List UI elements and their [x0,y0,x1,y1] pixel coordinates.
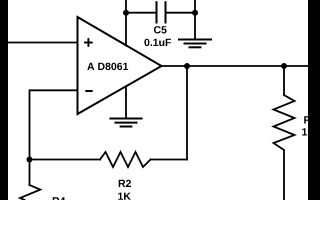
resistor R3 (load) [274,95,295,150]
wire bypass rail right [166,12,196,14]
node junction dot (C5 / ground) [192,10,198,16]
wire load resistor top [283,66,285,95]
wire output [162,65,309,67]
wire feedback vertical [186,66,188,160]
node junction dot (inverting / R2 / R4) [27,157,33,163]
wire load resistor bottom [283,150,285,200]
capacitor C5 reference label [154,26,167,33]
wire inverting input [30,90,78,185]
op-amp U1 AD8061 triangle [78,17,162,114]
wire feedback bottom [30,159,101,161]
resistor R2 [100,152,151,167]
op-amp U1 non-inverting input + marker [85,39,92,46]
node junction dot (output / load) [281,63,287,69]
op-amp U1 label AD8061 [87,63,128,70]
wire V+ supply pin [125,0,127,46]
resistor R4 [20,185,40,200]
ground (bypass) [179,40,211,48]
ground (op-amp V-) [110,119,141,127]
resistor R2 value label 1K [118,193,131,200]
wire supply drop to ground [194,0,196,40]
capacitor C5 [157,2,166,22]
wire V- supply pin [125,86,127,118]
wire non-inverting input [7,42,78,44]
capacitor C5 value label 0.1uF [144,39,171,46]
node junction dot (V+ / C5) [123,10,129,16]
resistor R2 reference label [119,180,131,187]
resistor R4 reference label [53,197,66,204]
wire R2 to feedback vertical [151,159,188,161]
op-amp U1 inverting input - marker [86,90,91,92]
resistor R3 reference label (cut by edge) [304,116,316,123]
wire bypass rail left [126,12,157,14]
node junction dot (output / feedback) [184,63,190,69]
resistor R3 value label (cut by edge) [302,128,315,135]
